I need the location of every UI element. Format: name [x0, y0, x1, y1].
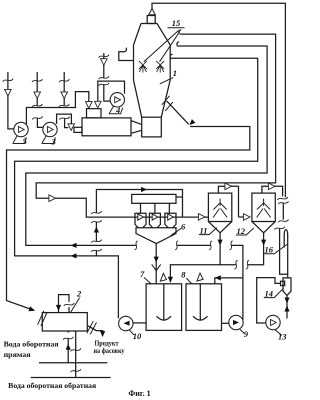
svg-text:16: 16: [265, 245, 274, 255]
svg-text:1: 1: [173, 68, 177, 78]
svg-text:прямая: прямая: [4, 350, 31, 359]
svg-text:12: 12: [237, 226, 246, 236]
svg-text:9: 9: [244, 329, 249, 339]
svg-text:4: 4: [115, 105, 120, 115]
svg-text:Фиг. 1: Фиг. 1: [128, 389, 150, 398]
svg-text:8: 8: [181, 270, 186, 280]
svg-text:Вода оборотная обратная: Вода оборотная обратная: [8, 381, 96, 390]
svg-text:Вода оборотная: Вода оборотная: [4, 339, 59, 348]
svg-text:10: 10: [133, 331, 142, 341]
svg-text:15: 15: [172, 18, 181, 28]
svg-text:на фасовку: на фасовку: [94, 346, 125, 355]
svg-text:3: 3: [51, 137, 57, 147]
svg-text:2: 2: [76, 288, 82, 298]
svg-text:14: 14: [265, 288, 274, 298]
svg-text:5: 5: [23, 136, 28, 146]
svg-text:11: 11: [200, 225, 208, 235]
